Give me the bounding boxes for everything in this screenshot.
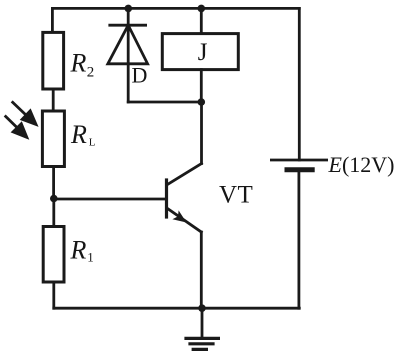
svg-text:R: R xyxy=(70,49,87,78)
transistor VT emitter arrowhead xyxy=(172,210,186,222)
svg-text:J: J xyxy=(198,39,208,66)
node B collector xyxy=(198,98,206,106)
wire right branch upper xyxy=(298,8,301,160)
node junction top relay xyxy=(198,5,206,13)
svg-text:1: 1 xyxy=(87,250,94,265)
wire bottom rail xyxy=(54,307,299,310)
ground bar 3 xyxy=(193,348,206,351)
svg-text:L: L xyxy=(89,137,96,149)
node junction top diode xyxy=(125,5,133,13)
transistor VT emitter diagonal xyxy=(168,209,202,233)
ground bar 2 xyxy=(190,342,213,345)
resistor R1 xyxy=(43,227,64,283)
resistor R2 xyxy=(43,32,64,89)
wire R2 to RL xyxy=(52,89,55,111)
ground stem xyxy=(201,308,204,338)
svg-text:D: D xyxy=(132,63,148,88)
light arrow 2 xyxy=(5,116,27,138)
svg-text:E(12V): E(12V) xyxy=(328,152,395,177)
wire RL to node A xyxy=(52,167,55,199)
wire top rail xyxy=(52,7,299,10)
wire relay bottom lead to node B xyxy=(200,70,203,102)
wire left branch upper xyxy=(51,8,54,33)
svg-text:VT: VT xyxy=(219,182,253,209)
diode D center lead through triangle xyxy=(127,25,130,102)
wire collector lead xyxy=(200,102,203,164)
svg-text:R: R xyxy=(70,120,87,149)
svg-text:2: 2 xyxy=(87,65,95,81)
svg-text:R: R xyxy=(70,236,87,265)
transistor VT base bar xyxy=(165,180,168,217)
diode D cathode lead xyxy=(127,8,130,25)
diode D cathode bar xyxy=(110,24,146,27)
diode D triangle xyxy=(108,25,148,64)
light arrow 1 xyxy=(12,101,36,124)
relay coil J box xyxy=(162,34,238,70)
wire R1 to bottom rail xyxy=(52,282,55,308)
wire right branch lower xyxy=(297,170,300,308)
node A base divider xyxy=(50,195,58,203)
wire emitter lead xyxy=(200,232,203,308)
wire base from node A xyxy=(54,198,167,201)
wire relay top lead xyxy=(200,8,203,33)
battery E positive plate xyxy=(271,159,326,162)
transistor VT collector diagonal xyxy=(168,164,202,185)
node ground junction xyxy=(198,304,206,312)
ground bar 1 xyxy=(186,337,218,340)
wire diode anode to node B xyxy=(128,101,201,104)
resistor RL (photoresistor) xyxy=(42,111,64,167)
battery E negative plate xyxy=(287,167,312,172)
wire node A to R1 xyxy=(52,199,55,227)
